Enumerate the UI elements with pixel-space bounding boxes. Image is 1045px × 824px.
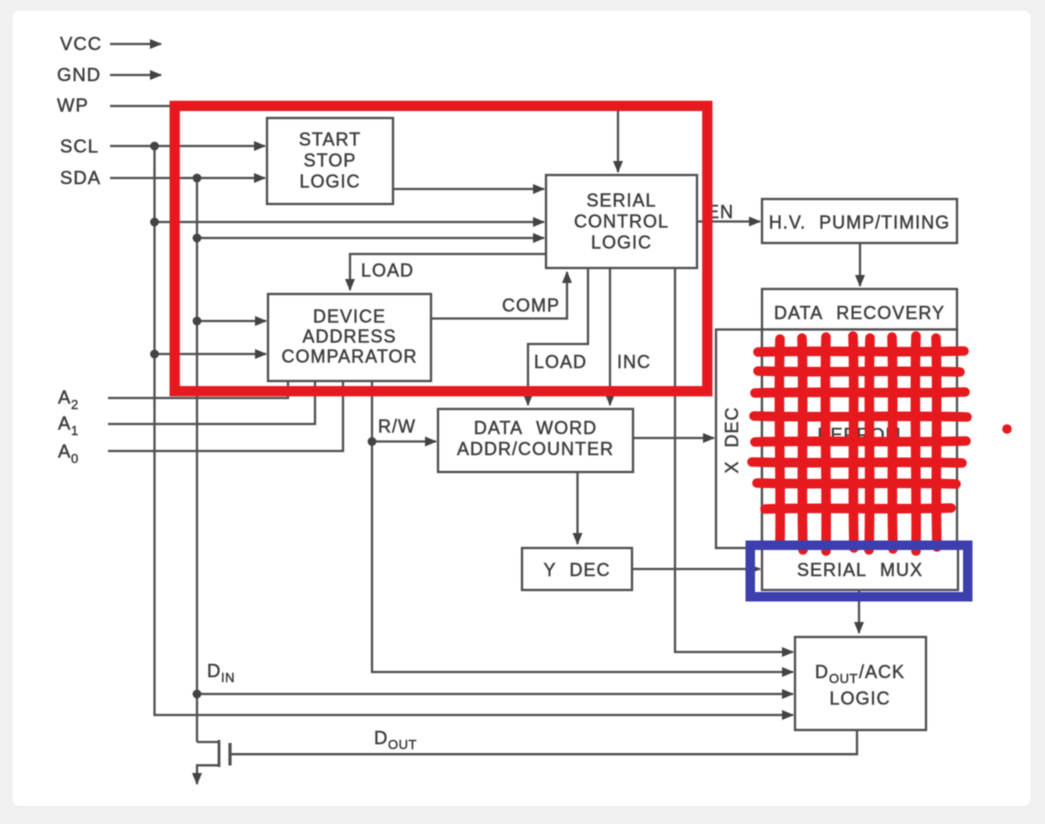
- svg-text:2: 2: [71, 397, 79, 412]
- svg-text:GND: GND: [57, 64, 101, 85]
- svg-text:H.V. PUMP/TIMING: H.V. PUMP/TIMING: [769, 213, 950, 233]
- svg-text:R/W: R/W: [378, 417, 416, 437]
- svg-text:A: A: [58, 413, 71, 434]
- svg-text:LOAD: LOAD: [534, 352, 587, 372]
- svg-text:COMP: COMP: [502, 296, 560, 316]
- svg-text:INC: INC: [617, 352, 651, 372]
- svg-text:CONTROL: CONTROL: [574, 212, 669, 232]
- svg-text:DEVICE: DEVICE: [313, 307, 386, 327]
- svg-text:ADDR/COUNTER: ADDR/COUNTER: [457, 439, 614, 459]
- svg-text:A: A: [58, 441, 71, 462]
- svg-text:DATA WORD: DATA WORD: [474, 418, 597, 438]
- svg-text:WP: WP: [57, 95, 89, 116]
- svg-text:0: 0: [71, 451, 79, 466]
- svg-text:LOAD: LOAD: [361, 261, 414, 281]
- svg-text:LOGIC: LOGIC: [591, 233, 652, 253]
- svg-text:VCC: VCC: [60, 33, 102, 54]
- svg-text:IN: IN: [221, 670, 235, 685]
- svg-text:COMPARATOR: COMPARATOR: [281, 347, 417, 367]
- svg-text:START: START: [299, 130, 361, 150]
- svg-text:DATA RECOVERY: DATA RECOVERY: [774, 303, 945, 323]
- svg-text:D: D: [374, 727, 388, 748]
- svg-text:LOGIC: LOGIC: [829, 689, 890, 709]
- svg-text:X DEC: X DEC: [722, 406, 742, 473]
- svg-text:LOGIC: LOGIC: [299, 172, 360, 192]
- svg-text:SCL: SCL: [60, 136, 99, 157]
- svg-text:ADDRESS: ADDRESS: [302, 327, 396, 347]
- svg-text:A: A: [58, 387, 71, 408]
- svg-text:D: D: [207, 660, 221, 681]
- svg-text:STOP: STOP: [304, 151, 357, 171]
- svg-text:SDA: SDA: [60, 167, 101, 188]
- svg-text:1: 1: [71, 423, 79, 438]
- svg-text:SERIAL: SERIAL: [586, 191, 656, 211]
- svg-text:OUT: OUT: [388, 737, 417, 752]
- svg-text:Y DEC: Y DEC: [543, 560, 610, 580]
- svg-text:SERIAL MUX: SERIAL MUX: [797, 560, 923, 580]
